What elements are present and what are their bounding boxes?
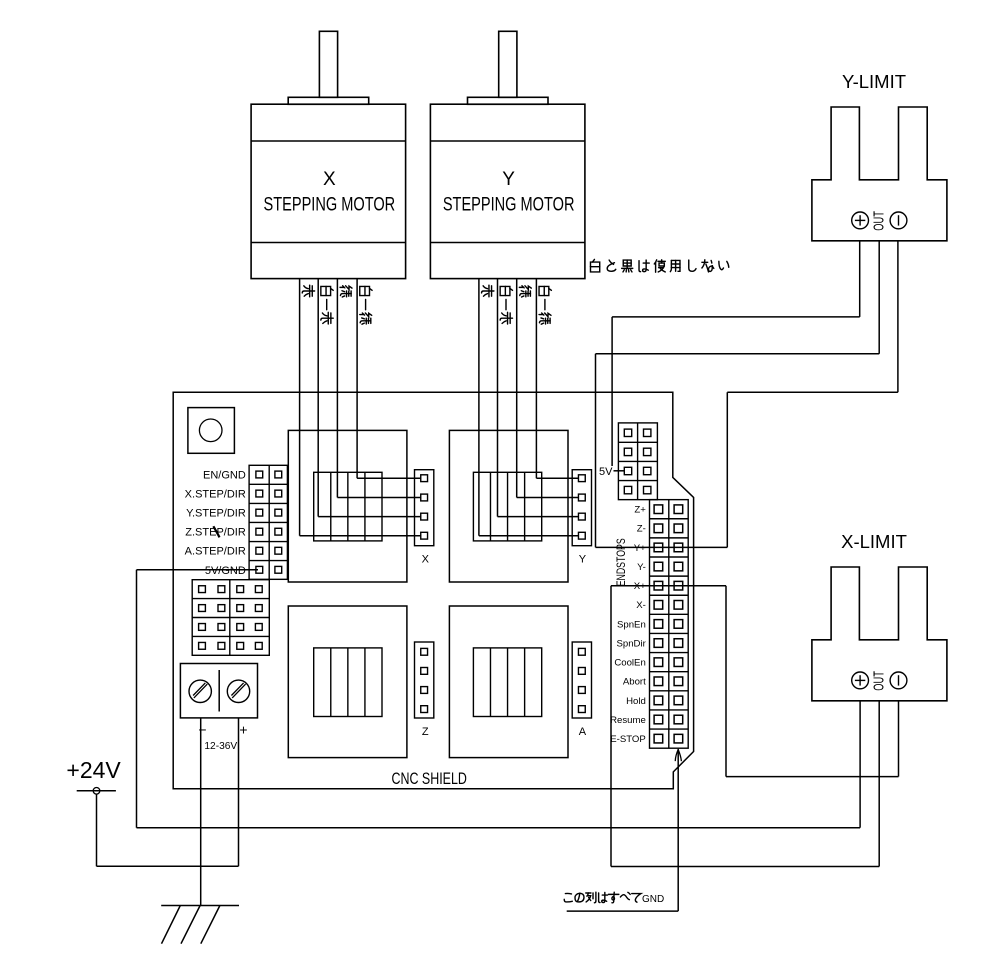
label Z.STEP/DIR bbox=[185, 527, 246, 539]
svg-text:OUT: OUT bbox=[870, 671, 887, 691]
Y motor wire 2 (白ー赤) bbox=[498, 279, 579, 517]
label Y+ bbox=[634, 543, 646, 554]
label +24V bbox=[66, 757, 121, 783]
svg-text:SpnEn: SpnEn bbox=[617, 619, 646, 630]
label X.STEP/DIR bbox=[185, 489, 246, 501]
wire Y-LIMIT OUT to Y+ bbox=[596, 241, 880, 548]
svg-text:E-STOP: E-STOP bbox=[610, 734, 646, 745]
svg-text:+24V: +24V bbox=[66, 757, 121, 783]
svg-text:12-36V: 12-36V bbox=[204, 741, 237, 752]
svg-text:X-LIMIT: X-LIMIT bbox=[841, 531, 907, 552]
label ENDSTOPS bbox=[615, 538, 629, 586]
X-LIMIT switch bbox=[812, 531, 947, 701]
svg-text:X.STEP/DIR: X.STEP/DIR bbox=[185, 489, 246, 501]
Y driver socket bbox=[449, 430, 568, 582]
wire X+ to X-LIMIT OUT bbox=[611, 586, 879, 867]
svg-text:A.STEP/DIR: A.STEP/DIR bbox=[185, 546, 246, 558]
svg-text:Y-LIMIT: Y-LIMIT bbox=[842, 71, 906, 92]
X motor wire 4 (白ー緑) bbox=[357, 279, 421, 479]
Y motor wire 3 (緑) bbox=[517, 279, 579, 498]
left control pin header (2x6) bbox=[249, 465, 287, 579]
Y motor wire 1 (赤) bbox=[479, 279, 578, 536]
svg-text:−: − bbox=[198, 722, 206, 738]
svg-text:5V/GND: 5V/GND bbox=[205, 565, 246, 577]
svg-text:X+: X+ bbox=[634, 581, 646, 592]
label A.STEP/DIR bbox=[185, 546, 246, 558]
wire terminal + down bbox=[238, 718, 240, 866]
note: shiro to kuro wa shiyou shinai bbox=[590, 259, 728, 272]
node +24V bbox=[77, 788, 116, 795]
label Hold bbox=[626, 696, 646, 707]
label 5V bbox=[599, 466, 613, 478]
X driver connector bbox=[415, 470, 434, 566]
reset button bbox=[188, 408, 235, 454]
label Abort bbox=[623, 677, 646, 688]
wire +24V to terminal + bbox=[97, 795, 239, 867]
wire Y+ row bbox=[596, 546, 728, 548]
cursor mark bbox=[214, 527, 219, 536]
A driver socket bbox=[449, 606, 568, 758]
power terminal block bbox=[180, 664, 257, 718]
svg-text:X-: X- bbox=[636, 600, 646, 611]
label 5V/GND bbox=[205, 565, 246, 577]
stepping motor Y bbox=[430, 31, 585, 278]
Z driver connector bbox=[415, 642, 434, 738]
ground symbol bbox=[161, 906, 239, 944]
X motor wire 3 (緑) bbox=[337, 279, 420, 498]
label Z- bbox=[637, 524, 646, 535]
svg-text:CoolEn: CoolEn bbox=[614, 658, 645, 669]
label E-STOP bbox=[610, 734, 646, 745]
X driver socket bbox=[288, 430, 407, 582]
svg-text:CNC SHIELD: CNC SHIELD bbox=[391, 770, 467, 788]
svg-text:STEPPING MOTOR: STEPPING MOTOR bbox=[443, 194, 575, 215]
svg-text:X: X bbox=[422, 553, 430, 565]
label Resume bbox=[610, 715, 646, 726]
svg-text:A: A bbox=[579, 726, 587, 738]
Z driver socket bbox=[288, 606, 407, 758]
X motor wire 2 (白ー赤) bbox=[318, 279, 421, 517]
svg-text:Z: Z bbox=[422, 726, 429, 738]
note: kono retsu wa subete GND bbox=[564, 892, 678, 911]
Y motor wire 4 (白ー緑) bbox=[536, 279, 578, 479]
label 12-36V bbox=[204, 741, 237, 752]
label EN/GND bbox=[203, 470, 246, 482]
svg-text:X: X bbox=[323, 169, 336, 190]
svg-text:STEPPING MOTOR: STEPPING MOTOR bbox=[264, 194, 396, 215]
arrow to GND column bbox=[675, 750, 681, 912]
svg-text:EN/GND: EN/GND bbox=[203, 470, 246, 482]
wire 5V/GND to X-LIMIT + bbox=[137, 570, 861, 828]
svg-text:Z+: Z+ bbox=[634, 505, 646, 516]
CNC shield board outline bbox=[173, 392, 693, 789]
label SpnEn bbox=[617, 619, 646, 630]
label minus bbox=[198, 722, 206, 738]
wire terminal - to ground bbox=[200, 718, 202, 906]
4x4 power pin grid bbox=[192, 580, 269, 656]
label X+ bbox=[634, 581, 646, 592]
label Z+ bbox=[634, 505, 646, 516]
label CNC SHIELD bbox=[391, 770, 467, 788]
svg-text:ENDSTOPS: ENDSTOPS bbox=[615, 538, 629, 586]
label X- bbox=[636, 600, 646, 611]
A driver connector bbox=[572, 642, 591, 738]
wire GND column to X-LIMIT - bbox=[726, 586, 899, 777]
svg-text:Y.STEP/DIR: Y.STEP/DIR bbox=[186, 508, 246, 520]
svg-text:5V: 5V bbox=[599, 466, 613, 478]
label plus bbox=[239, 722, 247, 738]
label Y.STEP/DIR bbox=[186, 508, 246, 520]
svg-text:SpnDir: SpnDir bbox=[616, 638, 646, 649]
label SpnDir bbox=[616, 638, 646, 649]
svg-text:Hold: Hold bbox=[626, 696, 646, 707]
wire 5V label to pin bbox=[614, 470, 625, 472]
svg-text:Y: Y bbox=[579, 553, 587, 565]
svg-text:Y: Y bbox=[502, 169, 515, 190]
svg-text:Y+: Y+ bbox=[634, 543, 646, 554]
svg-text:GND: GND bbox=[642, 894, 664, 905]
X motor wire 1 (赤) bbox=[300, 279, 421, 536]
Y-LIMIT switch bbox=[812, 71, 947, 241]
svg-text:+: + bbox=[239, 722, 247, 738]
5V pin header (2x4) bbox=[618, 423, 657, 500]
svg-text:OUT: OUT bbox=[870, 211, 887, 231]
endstop pin header (2x13) bbox=[650, 500, 689, 749]
svg-text:Resume: Resume bbox=[610, 715, 646, 726]
label Y- bbox=[637, 562, 646, 573]
wire Y-LIMIT - to GND column bbox=[727, 241, 898, 548]
svg-text:Z-: Z- bbox=[637, 524, 646, 535]
wire X+ row bbox=[611, 585, 726, 587]
wire Y-LIMIT + to 5V bbox=[612, 241, 860, 466]
svg-text:Abort: Abort bbox=[623, 677, 646, 688]
svg-text:Y-: Y- bbox=[637, 562, 646, 573]
label CoolEn bbox=[614, 658, 645, 669]
Y driver connector bbox=[572, 470, 591, 566]
stepping motor X bbox=[251, 31, 406, 278]
